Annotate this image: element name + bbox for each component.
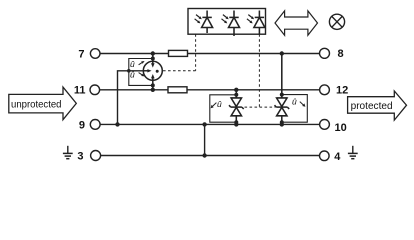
wire row 7 to 8 — [100, 53, 320, 55]
terminal number 7 — [78, 48, 84, 60]
svg-text:û: û — [130, 59, 135, 69]
suppressor diode V1 (TVS) — [229, 90, 244, 125]
wire row 3 to 4 — [101, 155, 320, 157]
dashed monitor line LED box to TVS pair — [245, 34, 276, 107]
junction: ground link top — [202, 122, 206, 126]
LED 2 — [222, 11, 240, 37]
label unprotected — [11, 98, 62, 110]
ground symbol right — [348, 146, 358, 159]
label u1 (top sparkover voltage) — [130, 59, 145, 69]
junction: GDT bottom on row 11 — [151, 88, 155, 92]
svg-text:8: 8 — [338, 48, 344, 60]
indicator LED box — [188, 9, 266, 35]
terminal 7 — [90, 49, 100, 59]
resistor R1 — [169, 50, 188, 56]
voltage bracket u at V2 — [282, 95, 308, 123]
junction: bracket arm1 on GDT lead — [151, 57, 155, 61]
resistor R2 — [168, 87, 187, 93]
protected flow arrow — [348, 91, 407, 120]
terminal number 8 — [338, 48, 344, 60]
svg-text:10: 10 — [335, 122, 347, 134]
voltage bracket u at V1 — [210, 95, 237, 122]
terminal 9 — [90, 120, 100, 130]
terminal 12 — [320, 85, 330, 95]
junction: V2 top on row 7 — [280, 51, 284, 55]
junction: V2 bracket bottom — [280, 120, 284, 124]
junction: V1 bracket bottom — [234, 120, 238, 124]
svg-text:3: 3 — [77, 151, 83, 163]
terminal 3 — [91, 151, 101, 161]
svg-text:11: 11 — [74, 85, 86, 97]
junction: V2 bracket top — [280, 93, 284, 97]
voltage bracket u1/u2 beside GDT — [129, 59, 153, 86]
svg-text:û: û — [292, 97, 297, 107]
label u at V1 — [211, 99, 222, 109]
GDT center electrode tap wire to ground rail — [118, 71, 149, 125]
svg-text:unprotected: unprotected — [11, 98, 62, 110]
terminal 10 — [320, 120, 330, 130]
terminal number 4 — [334, 151, 341, 163]
LED 3 — [247, 11, 265, 35]
terminal number 12 — [336, 84, 348, 96]
vertical wire row9 to row3/4 ground link — [204, 124, 206, 155]
unprotected flow arrow — [9, 87, 77, 120]
svg-text:12: 12 — [336, 84, 348, 96]
dashed monitor line LED box to GDT — [162, 34, 195, 71]
label u2 (bottom sparkover voltage) — [130, 69, 145, 79]
junction: GDT top on row 7 — [151, 51, 155, 55]
terminal number 10 — [335, 122, 347, 134]
LED 1 — [195, 11, 213, 34]
wire row 11 to 12 — [100, 89, 320, 91]
junction: ground link bottom — [202, 153, 206, 157]
label u at V2 — [292, 97, 305, 107]
junction: V1 top on row 11 — [234, 88, 238, 92]
gas discharge tube F1 — [143, 54, 162, 90]
suppressor diode V2 (TVS) — [275, 54, 290, 125]
junction: center tap on row 9 — [115, 122, 119, 126]
junction: V1 bracket top — [234, 93, 238, 97]
junction: bracket arm2 on GDT lead — [151, 83, 155, 87]
label protected — [351, 100, 393, 112]
terminal 4 — [320, 151, 330, 161]
junction: V2 bottom on row 9 — [280, 122, 284, 126]
terminal number 3 — [77, 151, 83, 163]
svg-text:û: û — [130, 69, 135, 79]
svg-text:9: 9 — [79, 119, 85, 131]
wire row 9 to 10 — [100, 123, 320, 125]
terminal number 11 — [74, 85, 86, 97]
defect indicator lamp (circled X) — [329, 14, 344, 29]
svg-text:û: û — [217, 99, 222, 109]
svg-text:7: 7 — [78, 48, 84, 60]
junction: bracket mid on center tap — [127, 69, 131, 73]
terminal 8 — [320, 48, 330, 58]
svg-text:protected: protected — [351, 100, 393, 112]
double arrow symbol (bidirectional) — [275, 11, 318, 35]
terminal number 9 — [79, 119, 85, 131]
junction: V1 bottom on row 9 — [234, 122, 238, 126]
ground symbol left — [63, 146, 73, 159]
terminal 11 — [90, 85, 100, 95]
svg-text:4: 4 — [334, 151, 341, 163]
